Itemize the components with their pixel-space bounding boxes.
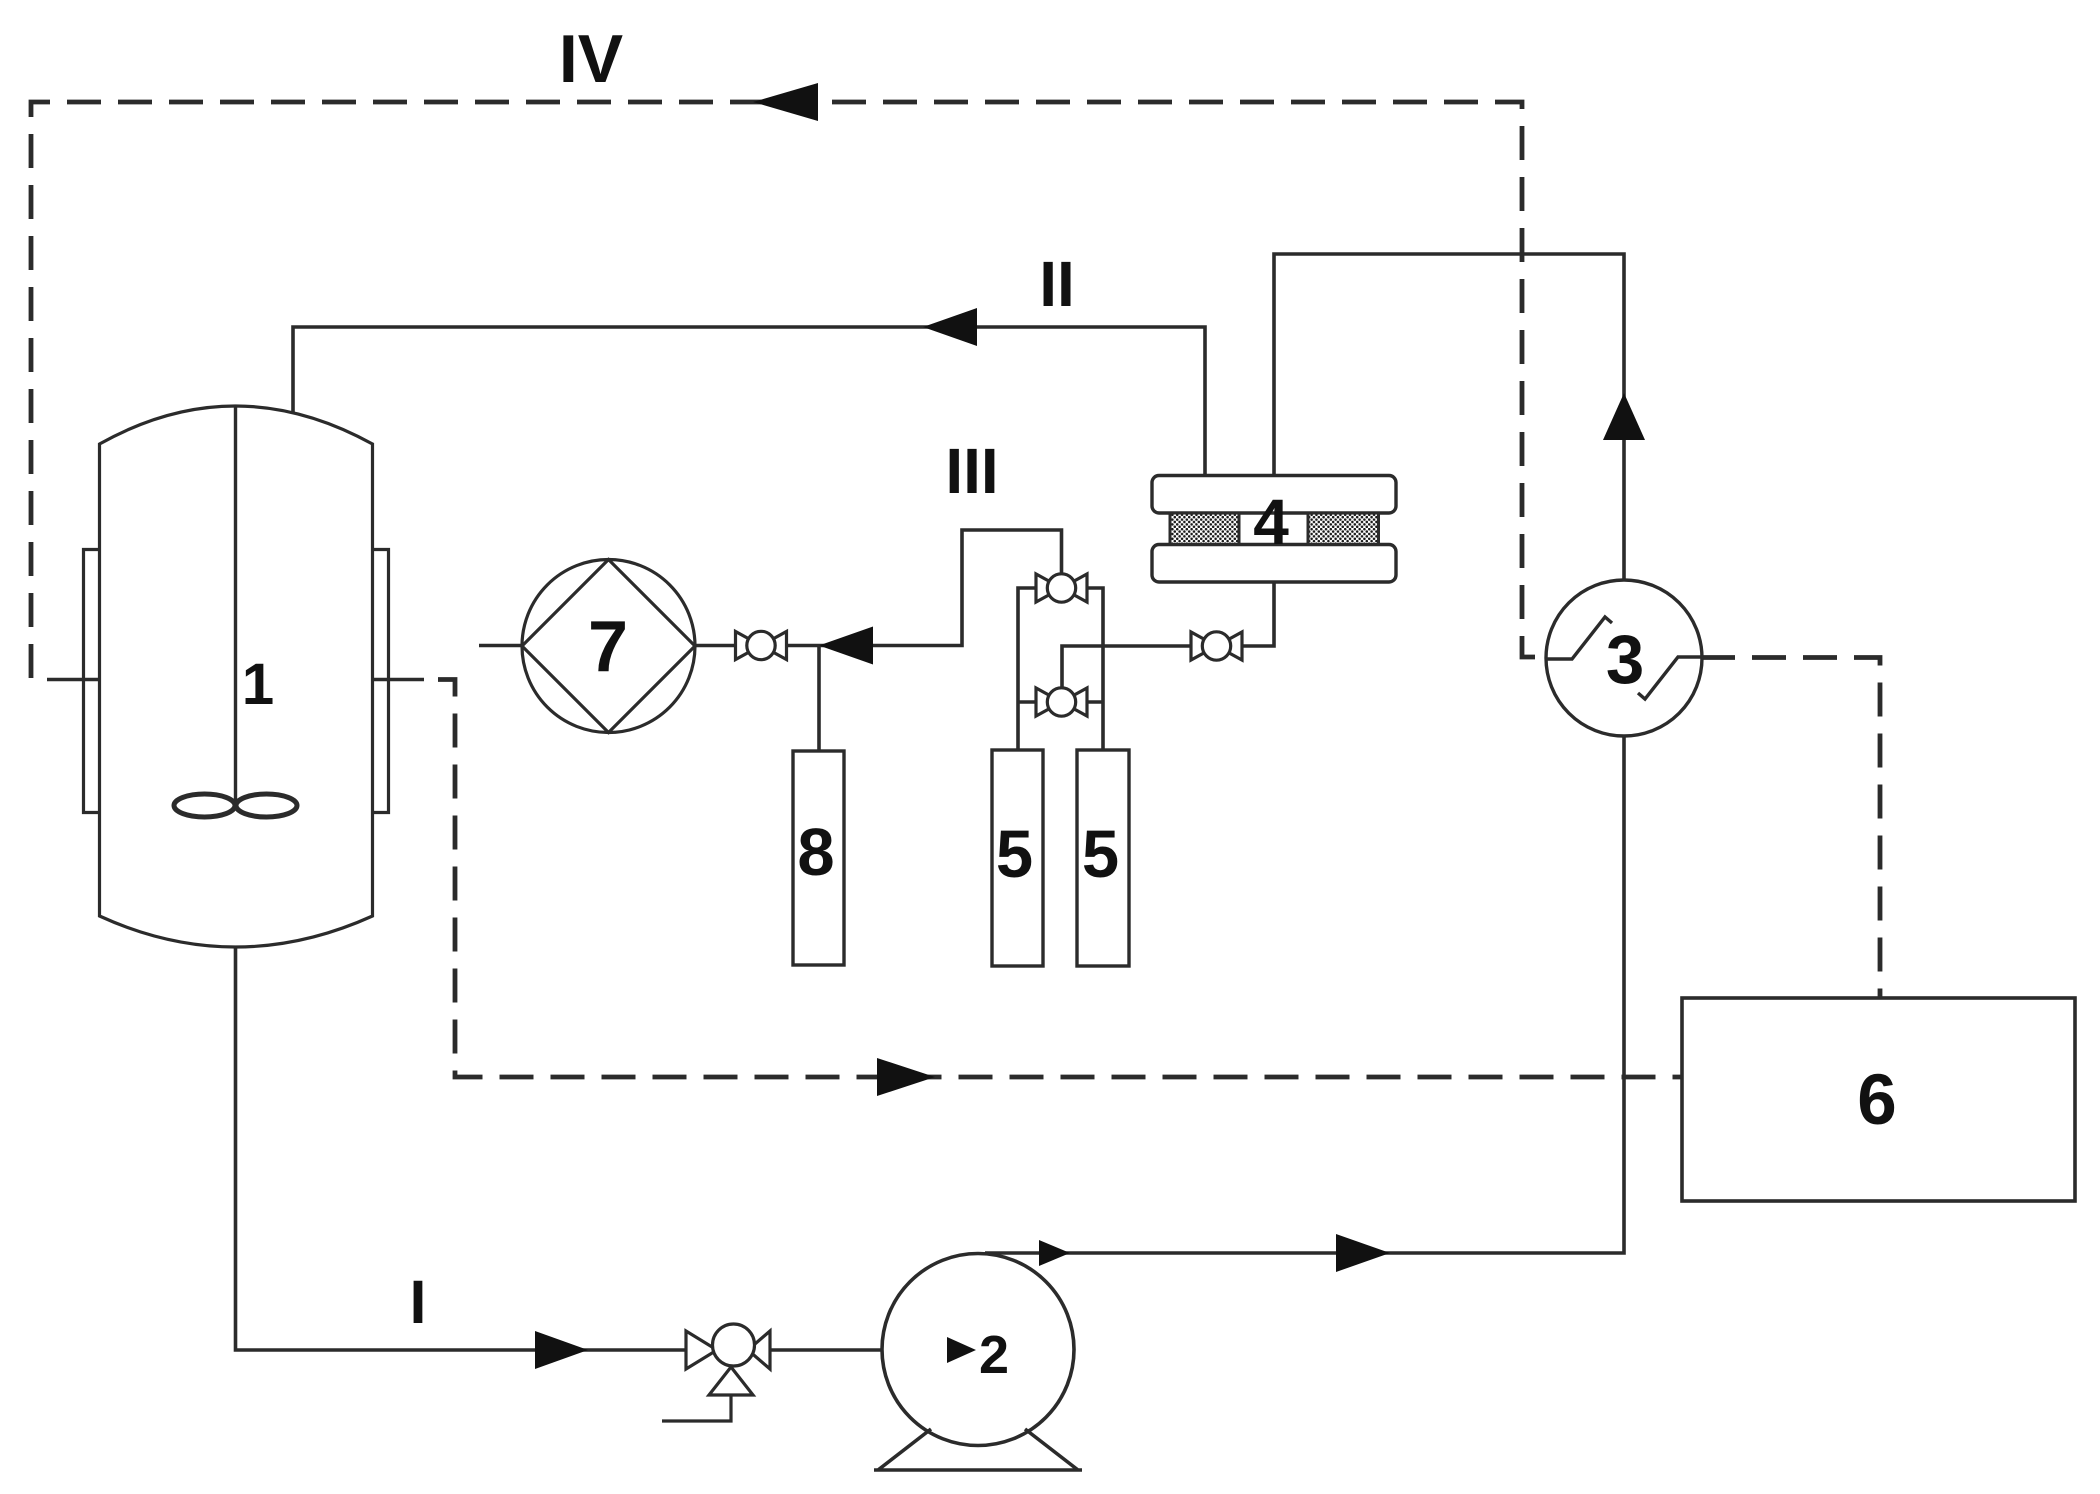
arrow inside pump 2 pointing right (947, 1337, 976, 1363)
stirrer shaft (234, 407, 237, 806)
wire: dashed control loop IV (HX3 left, up, across top, down to tank left nozzle) (31, 102, 1546, 678)
controller box 6 (1682, 998, 2075, 1201)
filter packing right (1308, 513, 1379, 545)
svg-text:1: 1 (242, 652, 274, 717)
svg-text:8: 8 (797, 815, 834, 890)
tank right nozzle (373, 678, 425, 682)
svg-text:5: 5 (1082, 817, 1119, 892)
filter module 4: top plate (1152, 476, 1396, 514)
arrow on stream I pointing right (535, 1331, 588, 1369)
wire: stream II from filter 4 left port to tank top (293, 327, 1205, 476)
filter packing left (1170, 513, 1239, 545)
wire: stream III from pump 7 line to top valve (479, 530, 1062, 646)
valve at filter 4 bottom line (1191, 632, 1242, 660)
svg-text:7: 7 (588, 607, 628, 687)
cylinder 5a (992, 750, 1043, 966)
tank left nozzle (47, 678, 100, 682)
valve V1 top of cylinder manifold (1036, 574, 1087, 602)
svg-text:5: 5 (996, 817, 1033, 892)
wire: from HX3 top up and left to filter 4 top port (1274, 254, 1624, 580)
heat exchanger 3 (1546, 580, 1702, 736)
arrow small at pump 2 outlet pointing right (1039, 1240, 1070, 1266)
cylinder 8 (793, 751, 844, 965)
svg-text:3: 3 (1606, 621, 1644, 698)
impeller blade right (236, 794, 297, 817)
wire: pump 2 discharge to HX3 bottom (985, 737, 1624, 1253)
svg-text:6: 6 (1857, 1061, 1897, 1140)
valve V2 lower cylinder manifold (1036, 688, 1087, 716)
wire: filter 4 bottom port down and left to valve manifold (1062, 581, 1274, 688)
pump 2 (circle with feet) (882, 1254, 1074, 1446)
cylinder 5b (1077, 750, 1129, 966)
arrow on dashed tank-to-6 line pointing right (877, 1058, 935, 1096)
jacket bracket right (373, 550, 389, 813)
vessel 1: stirred tank body (100, 406, 373, 947)
svg-text:II: II (1039, 248, 1075, 320)
arrow on line IV pointing left (753, 83, 818, 121)
wire: dashed signal line from HX3 right to top of box 6 (1701, 658, 1880, 999)
jacket bracket left (84, 550, 100, 813)
arrow pointing left at cylinder-8 junction (819, 627, 873, 665)
arrow on stream II pointing left (923, 308, 977, 346)
svg-text:IV: IV (559, 21, 623, 97)
valve after pump 7 (736, 631, 787, 659)
wire: dashed signal line from tank right nozzle down and right to box 6 (438, 680, 1682, 1078)
wire: drop from junction to cylinder 8 (817, 646, 821, 752)
svg-text:2: 2 (979, 1325, 1009, 1385)
filter module 4: bottom plate (1152, 545, 1396, 583)
pump 7 (circle with inscribed diamond) (522, 560, 695, 733)
arrow pointing up on HX3 outlet line (1603, 393, 1645, 440)
wire: three-way valve to pump 2 (770, 1348, 947, 1352)
wire: left manifold riser to cylinder 5a (1018, 588, 1036, 750)
svg-text:III: III (945, 435, 998, 507)
svg-text:I: I (410, 1268, 427, 1336)
three-way valve on stream I (662, 1324, 770, 1421)
svg-text:4: 4 (1253, 486, 1289, 558)
wire: stream I from tank bottom to three-way valve (236, 946, 686, 1350)
wire: right manifold riser to cylinder 5b (1087, 588, 1103, 750)
pump 7 inner diamond (522, 560, 695, 733)
impeller blade left (174, 794, 235, 817)
arrow on discharge line pointing right (1336, 1234, 1390, 1272)
